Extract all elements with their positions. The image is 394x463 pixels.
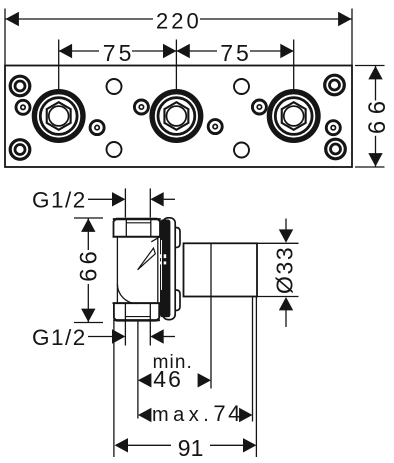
svg-text:66: 66	[76, 247, 103, 282]
svg-text:max.74: max.74	[152, 401, 243, 426]
svg-text:66: 66	[364, 94, 391, 134]
svg-text:Ø33: Ø33	[272, 246, 298, 294]
svg-text:46: 46	[153, 366, 183, 392]
svg-text:220: 220	[156, 8, 202, 33]
svg-text:G1/2: G1/2	[32, 187, 87, 212]
svg-text:91: 91	[178, 435, 204, 461]
svg-text:75: 75	[103, 40, 135, 66]
svg-text:G1/2: G1/2	[32, 325, 87, 350]
svg-text:75: 75	[220, 40, 252, 66]
